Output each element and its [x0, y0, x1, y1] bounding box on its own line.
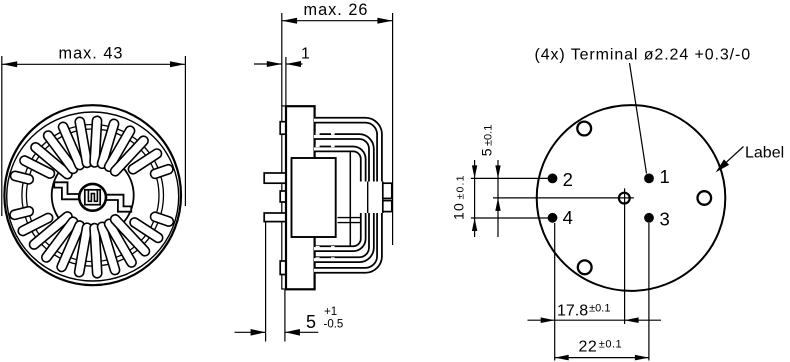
svg-text:max. 43: max. 43	[59, 45, 124, 63]
svg-text:1: 1	[301, 46, 310, 63]
svg-text:1: 1	[660, 166, 670, 187]
svg-text:4: 4	[563, 207, 573, 228]
svg-text:(4x) Terminal ø2.24 +0.3/-0: (4x) Terminal ø2.24 +0.3/-0	[535, 47, 752, 64]
svg-text:3: 3	[660, 209, 670, 230]
svg-text:-0.5: -0.5	[324, 318, 344, 330]
svg-text:5: 5	[306, 312, 316, 332]
svg-text:2: 2	[563, 169, 573, 190]
svg-text:max. 26: max. 26	[304, 1, 369, 19]
svg-text:+1: +1	[324, 306, 337, 318]
svg-text:Label: Label	[745, 145, 784, 162]
